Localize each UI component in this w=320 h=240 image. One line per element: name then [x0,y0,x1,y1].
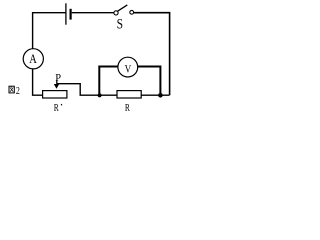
figure label 图 glyph inner cross [10,87,13,92]
svg-text:R: R [54,102,60,113]
wire slider P to bottom wire [57,84,80,96]
figure label 图 glyph box [9,86,14,93]
switch S right contact circle [130,10,134,14]
rheostat slider arrowhead [54,84,59,89]
svg-text:2: 2 [16,86,20,97]
ammeter A1 circle [23,49,43,69]
wire battery to switch [72,12,114,14]
switch S left contact circle [114,11,118,15]
rheostat slider stub [56,80,58,85]
battery B1 long plate [65,3,67,24]
svg-text:P: P [55,72,61,84]
junction node left (voltmeter tap) [98,93,102,97]
junction node right (voltmeter tap) [158,93,163,98]
battery B1 short thick plate [69,9,71,20]
voltmeter left branch wire [99,67,118,96]
bottom wire from slider branch to right corner [80,94,170,96]
svg-text:V: V [125,63,132,75]
wire top-left: ammeter top to corner to battery [33,13,66,49]
voltmeter V1 circle [118,57,138,77]
wire ammeter bottom to corner to rheostat left terminal [33,69,43,95]
resistor R body [117,91,141,98]
prime mark of R' [60,104,63,105]
wire switch to top-right corner and down right side [134,13,170,96]
voltmeter right branch wire [138,67,161,96]
switch S blade [118,5,128,11]
svg-text:A: A [29,53,37,66]
svg-text:R: R [125,102,131,113]
rheostat R' body [43,91,67,98]
svg-text:S: S [117,15,123,32]
